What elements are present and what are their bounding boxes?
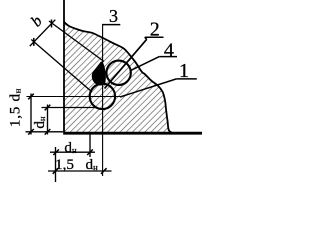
centerline / leader 3: lower hole vertical axis xyxy=(102,25,104,176)
label 4 underline xyxy=(159,56,177,58)
extension line x=55.5 xyxy=(55,147,57,182)
svg-text:1,5 dн: 1,5 dн xyxy=(7,88,24,127)
b extension line upper xyxy=(49,21,104,62)
extension line: base level extended left xyxy=(26,131,64,133)
tick xyxy=(53,149,59,155)
tick xyxy=(28,129,34,135)
leader 4 xyxy=(131,57,159,71)
b tick 1 xyxy=(33,38,35,46)
extension line at counterbore depth xyxy=(42,107,98,109)
svg-text:1,5: 1,5 xyxy=(55,156,74,173)
horizontal dimension dn: dim line xyxy=(50,151,95,153)
label 1 underline xyxy=(176,78,196,80)
tick xyxy=(45,105,51,111)
horizontal dimension 1,5dn: dim line xyxy=(48,170,112,172)
vertical dimension 1,5dn: dim line xyxy=(30,94,32,135)
b extension line lower xyxy=(31,40,92,93)
label 3 underline xyxy=(102,24,120,26)
part outline: base line xyxy=(63,132,202,135)
tick xyxy=(45,129,51,135)
extension line x=89.3 xyxy=(89,132,91,157)
svg-text:4: 4 xyxy=(164,39,174,61)
label 2 underline xyxy=(145,36,164,38)
lower circle: drilled hole xyxy=(90,84,115,109)
part outline: top cast surface curve xyxy=(64,22,172,133)
upper circle: inclined drill xyxy=(106,61,130,85)
svg-text:3: 3 xyxy=(109,6,118,26)
b dimension line xyxy=(30,20,56,46)
tick xyxy=(53,168,59,174)
vertical dimension dn: dim line xyxy=(47,105,49,135)
leader 1 xyxy=(120,79,176,97)
part body section (hatched casting wall) xyxy=(64,22,172,133)
tick xyxy=(87,149,93,155)
drill spot platform (black) xyxy=(92,62,105,85)
part outline: left section edge xyxy=(63,0,65,133)
centerline: lower hole horizontal xyxy=(27,96,121,98)
tick xyxy=(28,94,34,100)
tick xyxy=(101,168,107,174)
b tick 2 xyxy=(51,20,53,28)
inclined drill axis / leader 2 xyxy=(105,39,147,88)
